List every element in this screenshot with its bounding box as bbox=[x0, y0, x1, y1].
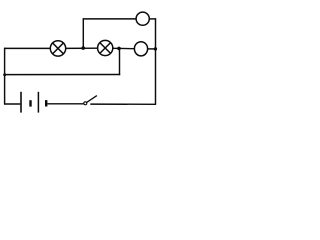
wire: top circle to right bus bbox=[149, 18, 156, 20]
lamp L1 bbox=[50, 41, 65, 56]
wire: top row horizontal bbox=[83, 18, 137, 20]
wire: battery to switch bbox=[47, 103, 83, 105]
battery long plate 2 bbox=[37, 92, 39, 113]
wire: bottom left to battery bbox=[4, 103, 20, 105]
wire: meter M2 to right bus bbox=[148, 48, 156, 50]
node: junction dot on right bus bbox=[154, 47, 157, 50]
battery short plate 2 bbox=[45, 100, 47, 106]
wire: vertical branch up to top row bbox=[82, 18, 84, 48]
node: junction dot at branch down bbox=[117, 47, 121, 51]
wire: switch contact to bottom right bbox=[90, 103, 156, 105]
battery B1 (two cells) bbox=[21, 92, 46, 113]
wire: vertical branch down from node bbox=[119, 48, 121, 75]
wire: lower return wire to left bus bbox=[4, 74, 120, 76]
battery long plate 1 bbox=[20, 92, 22, 113]
meter M1 (top plain circle) bbox=[136, 12, 149, 25]
lamp L2 bbox=[98, 40, 113, 55]
meter M2 (right plain circle) bbox=[134, 42, 147, 56]
node: junction dot at branch to top wire bbox=[81, 46, 85, 50]
node: junction dot on left bus bbox=[3, 73, 6, 76]
wire: middle row, left segment to lamp L1 bbox=[4, 47, 51, 49]
switch S1 pivot bbox=[84, 102, 87, 105]
wire: middle row, between L1 and L2 bbox=[66, 47, 98, 49]
wire: right vertical bus bbox=[155, 18, 157, 104]
wire: left vertical bus bbox=[4, 48, 6, 105]
battery short plate 1 bbox=[29, 100, 31, 106]
switch S1 lever (open) bbox=[87, 96, 97, 103]
wire: middle row, L2 to meter M2 bbox=[113, 47, 135, 49]
